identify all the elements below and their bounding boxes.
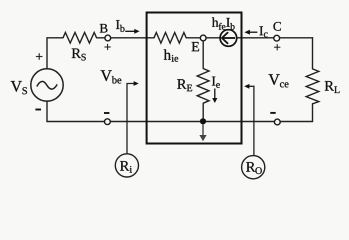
label C <box>273 22 280 31</box>
wire h_ie to node E <box>186 37 201 39</box>
label h_fe I_b <box>212 17 235 29</box>
wire right side down to R_L <box>312 38 314 69</box>
label B <box>100 24 108 33</box>
resistor R_L <box>306 69 319 104</box>
label V_S <box>11 81 27 94</box>
minus sign at bottom-left terminal <box>104 112 109 114</box>
output-resistance pointer R_O <box>244 84 254 155</box>
wire V_S bottom lead <box>46 101 48 122</box>
wire node C to top-right corner <box>279 37 312 39</box>
wire node B to h_ie <box>110 37 154 39</box>
source V_S (sine symbol) <box>31 69 63 101</box>
wire R_S to node B <box>97 37 106 39</box>
current label I_c with arrow <box>244 26 267 37</box>
resistor h_ie <box>154 33 186 44</box>
resistor R_S <box>63 33 97 44</box>
plus sign of V_S <box>36 53 42 59</box>
wire node E to current source <box>206 37 220 39</box>
label h_ie <box>164 49 178 61</box>
minus sign of V_S <box>35 109 41 111</box>
emitter branch arrow to box bottom <box>199 124 206 141</box>
current label I_e with arrow <box>212 77 220 103</box>
input-resistance pointer R_i <box>127 81 139 153</box>
plus sign at B <box>105 44 111 50</box>
circled label R_O <box>242 156 265 179</box>
wire current source to node C <box>237 37 274 39</box>
wire bottom rail <box>47 121 313 123</box>
junction node (emitter to rail) <box>200 118 206 124</box>
hybrid-model box <box>147 13 242 144</box>
bottom-right terminal <box>274 119 280 125</box>
bottom-left terminal <box>105 119 111 125</box>
minus sign at bottom-right terminal <box>270 112 275 114</box>
label R_E <box>177 79 192 91</box>
wire V_S top lead to R_S <box>47 38 63 68</box>
plus sign at C <box>274 44 280 50</box>
wire R_L bottom lead <box>312 104 314 122</box>
current source h_fe*I_b <box>220 30 237 47</box>
circled label R_i <box>115 154 138 177</box>
current label I_b with arrow <box>116 20 140 34</box>
label E <box>192 42 199 51</box>
label V_be <box>101 70 122 83</box>
wire R_E to bottom junction <box>202 103 204 121</box>
label R_S <box>72 49 86 61</box>
node B terminal <box>105 35 111 41</box>
node C terminal <box>274 35 280 41</box>
label R_L <box>325 81 340 93</box>
label V_ce <box>268 74 288 87</box>
node E terminal <box>200 35 206 41</box>
wire node E down to R_E <box>202 41 204 69</box>
resistor R_E <box>197 69 209 104</box>
